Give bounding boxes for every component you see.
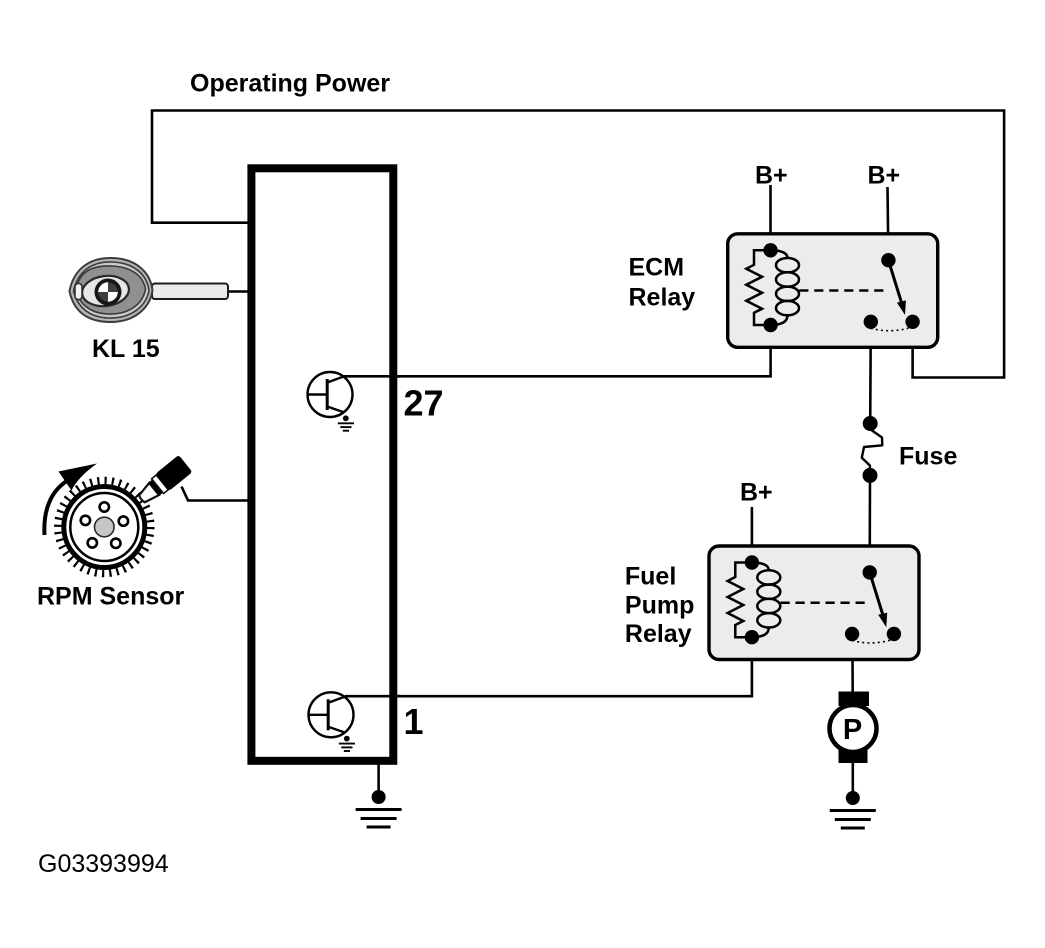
svg-text:KL 15: KL 15 [92,335,160,363]
svg-text:Operating Power: Operating Power [190,69,390,97]
svg-text:B+: B+ [755,162,788,190]
svg-text:B+: B+ [740,478,773,506]
svg-text:G03393994: G03393994 [38,850,169,878]
svg-text:P: P [843,714,862,746]
svg-text:B+: B+ [868,162,901,190]
svg-text:Relay: Relay [625,620,692,648]
svg-text:ECM: ECM [629,254,685,282]
svg-text:1: 1 [404,701,424,742]
svg-text:Pump: Pump [625,591,694,619]
svg-text:27: 27 [404,383,444,424]
svg-text:RPM Sensor: RPM Sensor [37,583,185,611]
svg-text:Fuse: Fuse [899,443,957,471]
svg-text:Fuel: Fuel [625,563,676,591]
svg-text:Relay: Relay [629,284,696,312]
